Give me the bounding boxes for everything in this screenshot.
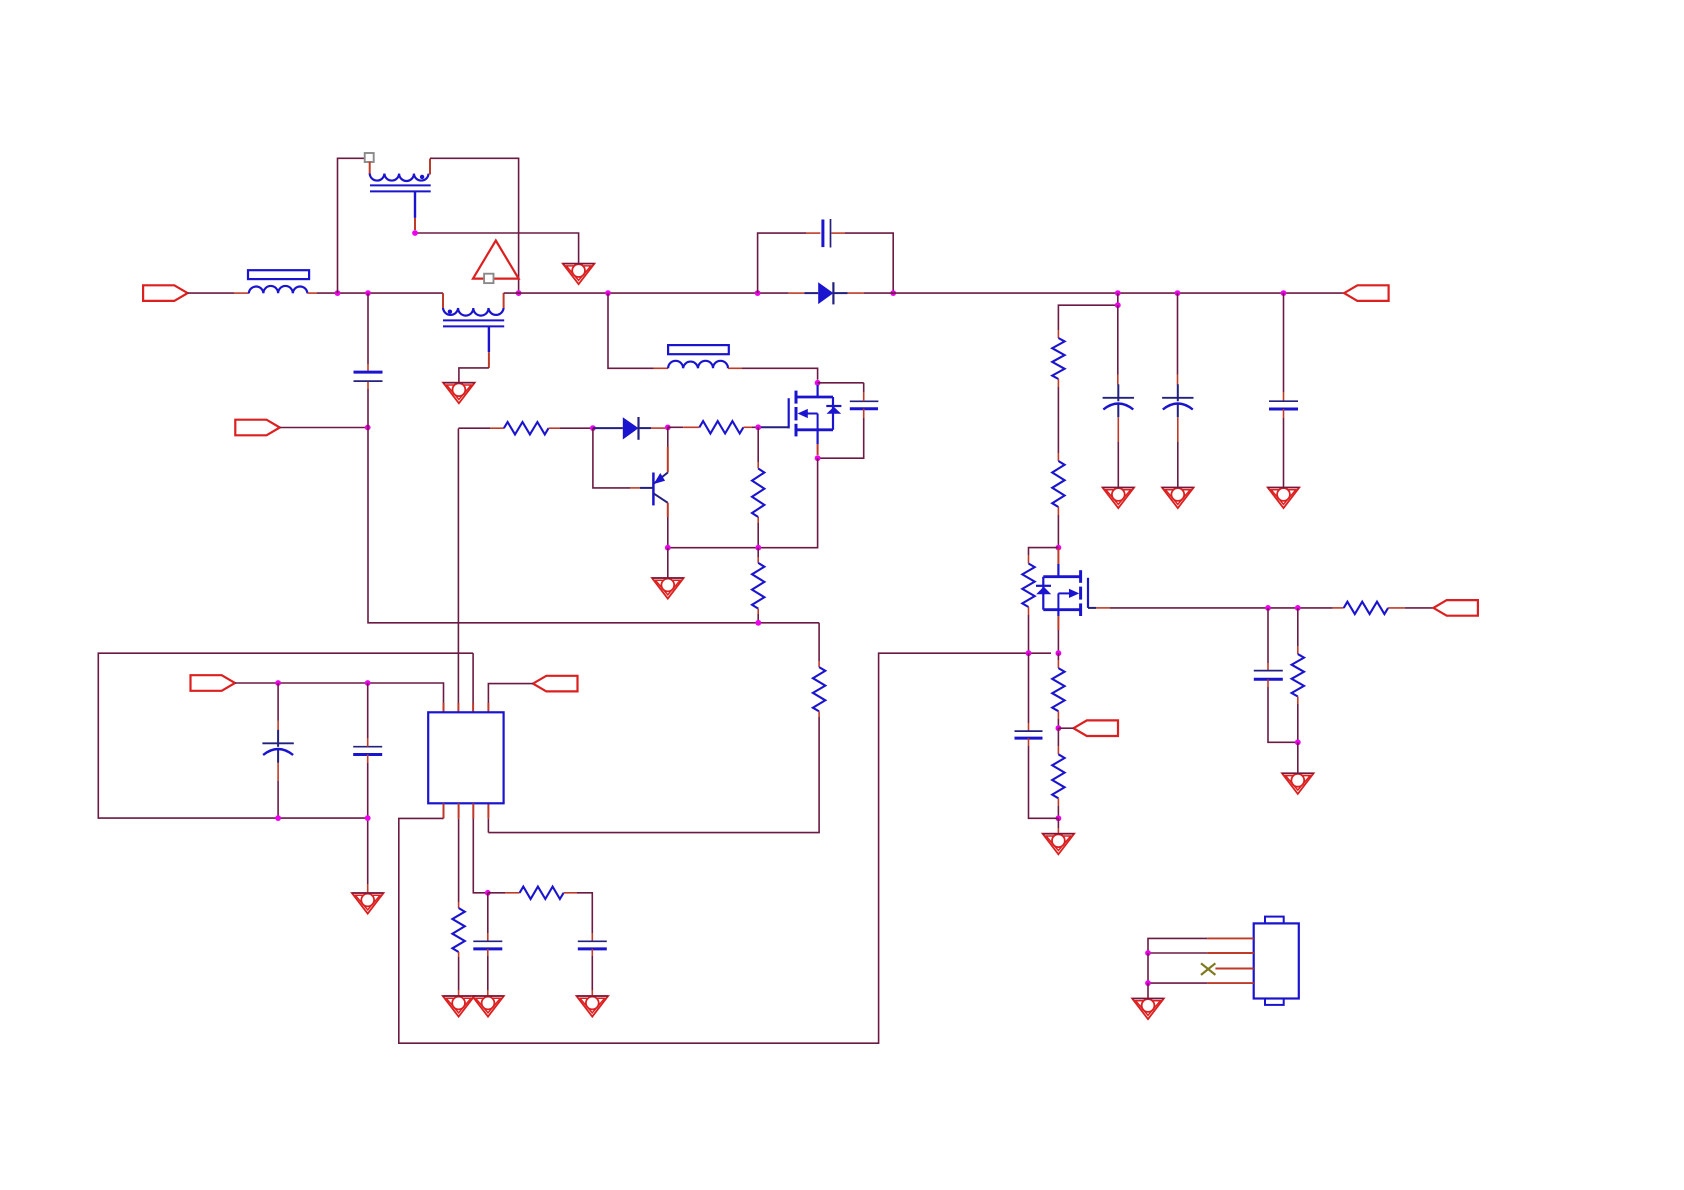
wire R6 branch <box>1297 608 1299 654</box>
resistor R11 <box>752 563 764 609</box>
transformer T1 (top) <box>370 159 431 230</box>
wire R13 to ground G10 <box>458 952 460 996</box>
wire T1 secondary right to ground G1 <box>415 233 579 264</box>
junction x1118 corner <box>1115 302 1121 308</box>
wire base divider <box>593 428 640 488</box>
wire R11 to lower rail <box>757 609 759 623</box>
ground G13 <box>1132 999 1164 1020</box>
junction bus/snubber-right <box>890 290 896 296</box>
port P7 (output right) <box>1433 600 1478 616</box>
ferrite bead L1 <box>248 270 317 293</box>
resistor R6 <box>1292 654 1304 696</box>
wire x458 to IC pin2 stub <box>457 703 459 712</box>
junction C6/loop bottom <box>365 815 371 821</box>
wire P4 to IC pin2 <box>488 684 533 713</box>
resistor R9 <box>504 422 549 434</box>
wire node to P5 <box>1058 727 1073 729</box>
junction emitter/rail <box>665 545 671 551</box>
wire ground node to G8 <box>1057 818 1059 833</box>
warning marker triangle <box>473 241 519 284</box>
connector J1 body <box>1254 917 1299 1005</box>
wire connector pin2 <box>1148 952 1207 954</box>
junction connector pins 1-2 <box>1145 950 1151 956</box>
capacitor C5 (across Q1) <box>850 401 879 408</box>
MOSFET Q3 (with body diode, mirrored) <box>1036 548 1088 630</box>
junction bus/cap C4 <box>1281 290 1287 296</box>
wire R6 to junction <box>1297 697 1299 743</box>
capacitor CP1 (polarized) <box>1103 384 1134 417</box>
wire drive row to R9 <box>458 427 504 429</box>
unconnected-pin marker (gray square) at T1 pin 1 <box>365 153 374 162</box>
ground G11 <box>472 996 504 1017</box>
ground G3 <box>652 578 684 599</box>
wire gate node down <box>757 427 759 468</box>
wire C7 branch <box>1028 653 1030 731</box>
wire IC pin5 (bottom-left) to bottom rail <box>399 653 1051 1043</box>
wire D2 cathode down to Q2 collector <box>667 427 669 460</box>
junction bus/T1-primary <box>335 290 341 296</box>
capacitor C3 (snubber, vertical plates) <box>823 219 831 248</box>
wire node to R14 <box>488 892 520 894</box>
ground G6 <box>1268 488 1300 509</box>
wire R2 to Q3 drain node <box>1057 507 1059 548</box>
wire to ground G13 <box>1147 983 1149 998</box>
wire P2 to C1 column <box>280 427 368 429</box>
capacitor C8 <box>473 941 502 949</box>
junction bus/C1-column <box>365 290 371 296</box>
wire C8 to ground G11 <box>487 949 489 996</box>
IC U1 <box>428 712 503 803</box>
junction output RC <box>1295 739 1301 745</box>
junction Q3 source/rail <box>1056 650 1062 656</box>
wire Q3 gate to output row <box>1088 607 1333 609</box>
wire x1118 down to CP1 <box>1117 305 1119 384</box>
connector pin 3 (no-connect) <box>1215 968 1253 970</box>
wire bus down to L2 <box>608 293 668 368</box>
wire R10 to rail <box>757 517 759 548</box>
junction gate node <box>755 424 761 430</box>
capacitor CP2 (polarized) <box>1162 384 1193 417</box>
wire node to R5 <box>1057 728 1059 754</box>
wire D2 to R8 <box>668 426 700 428</box>
wire C1 column (bus down to rail) <box>368 293 819 623</box>
ground G7 <box>1282 773 1314 794</box>
wire drive feed vertical x458 <box>457 429 459 704</box>
diode D2 <box>593 417 665 440</box>
junction D2 anode <box>590 425 596 431</box>
resistor R4 <box>1052 668 1064 711</box>
wire Q2 emitter to rail <box>667 517 669 548</box>
wire R3 to rail <box>1028 607 1030 653</box>
ground G9 <box>352 893 384 914</box>
wire CP3 top <box>277 683 279 730</box>
wire connector pin1 <box>1148 938 1207 953</box>
port P2 (left) <box>235 420 279 436</box>
capacitor C7 <box>1015 731 1043 738</box>
wire to R7 <box>1333 607 1344 609</box>
junction R6 node <box>1295 605 1301 611</box>
wire connector gnd column <box>1147 953 1149 983</box>
resistor R10 <box>752 469 764 518</box>
resistor R12 <box>813 667 825 711</box>
junction Q1 source node <box>815 455 821 461</box>
wire snubber left vertical <box>758 233 821 293</box>
junction T1 secondary <box>412 230 418 236</box>
wire snubber right vertical <box>832 233 894 293</box>
wire IC pin6 to R13 <box>458 803 460 908</box>
junction bus/snubber-left <box>755 290 761 296</box>
resistor R7 <box>1344 602 1388 614</box>
junction P2/C1 column <box>365 425 371 431</box>
wire bus down x1118 + corner to ladder <box>1058 293 1117 338</box>
resistor R3 <box>1022 564 1034 608</box>
ground G10 <box>443 996 475 1017</box>
resistor R1 <box>1052 338 1064 379</box>
ground G2 (T2 secondary) <box>443 383 475 404</box>
junction Q1 drain node <box>815 380 821 386</box>
wire rail to ground G3 <box>667 548 669 578</box>
wire C6 top <box>367 683 369 747</box>
wire R4 to port node <box>1057 711 1059 728</box>
wire connector pin4 <box>1148 982 1207 984</box>
wire bus T2 to snubber <box>504 292 789 294</box>
wire C7 bottom to ground node <box>1029 738 1059 818</box>
port P1 (input, left) <box>143 285 188 301</box>
junction Q3 drain node <box>1056 545 1062 551</box>
junction P3/C6 <box>365 680 371 686</box>
port P5 <box>1074 720 1119 736</box>
wire T2 secondary to ground G2 <box>459 368 489 383</box>
wire C10 branch <box>1267 608 1269 671</box>
wire T1 pin2 to bus <box>430 158 519 293</box>
junction R3/rail <box>1026 650 1032 656</box>
wire C9 to ground G12 <box>591 949 593 996</box>
wire R12 to IC pin4 row <box>488 711 819 832</box>
wire R9 to D2 <box>549 427 593 429</box>
wire drain node to R3 <box>1029 548 1059 564</box>
capacitor CP3 (polarized) <box>262 730 293 763</box>
port P3 (left mid) <box>191 675 236 691</box>
wire to ground G7 <box>1297 742 1299 773</box>
wire P1 to L1 <box>188 292 249 294</box>
wire CP1 to ground G4 <box>1117 417 1119 487</box>
wire L1 to T2 (main bus) <box>317 292 443 294</box>
wire C4 to ground G6 <box>1283 409 1285 488</box>
wire Q3 source to rail <box>1057 630 1059 653</box>
transformer T2 (in bus line) <box>443 293 504 368</box>
wire node down to C8 <box>487 893 489 942</box>
capacitor C10 <box>1254 671 1283 680</box>
connector pin 4 <box>1207 982 1254 984</box>
junction bus/T1 pin2 <box>516 290 522 296</box>
junction R10/rail <box>755 545 761 551</box>
resistor R14 <box>520 887 564 899</box>
wire T1 primary left (up from bus) <box>338 158 365 293</box>
wire C6 bottom to ground G9 <box>367 755 369 894</box>
wire bus down to CP2 <box>1177 293 1179 384</box>
junction bus/cap CP2 <box>1175 290 1181 296</box>
wire Q1 gate lead <box>758 426 789 428</box>
wire IC pin4 stub <box>487 803 489 832</box>
wire CP3 bottom <box>277 763 279 819</box>
wire lower rail corner down <box>818 623 820 667</box>
ground G4 <box>1103 488 1135 509</box>
wire loop top to IC pin3 <box>472 653 474 712</box>
wire C10 to R6 bottom <box>1268 679 1298 742</box>
resistor R8 (gate) <box>699 421 743 433</box>
no-connect X mark <box>1201 963 1215 975</box>
junction R11/lower rail <box>755 620 761 626</box>
wire L2 to Q1 drain <box>742 368 818 380</box>
junction bus/branch-down <box>605 290 611 296</box>
port P6 (output, top right) <box>1344 285 1389 301</box>
connector pin 2 <box>1207 952 1254 954</box>
port P4 (mid) <box>533 676 578 692</box>
wire Q1 drain to C5 <box>818 383 864 402</box>
wire rail down to R11 <box>757 548 759 563</box>
wire R1-R2 <box>1057 379 1059 461</box>
diode D1 (bus rectifier) <box>789 282 864 304</box>
connector pin 1 <box>1207 937 1254 939</box>
junction D2 cathode <box>665 425 671 431</box>
junction port P5 node <box>1056 725 1062 731</box>
ferrite bead L2 <box>668 345 742 368</box>
capacitor C1 <box>354 372 383 381</box>
resistor R2 <box>1052 461 1064 507</box>
junction connector pins <box>1145 980 1151 986</box>
capacitor C4 <box>1269 401 1298 409</box>
junction CP3/loop bottom <box>275 815 281 821</box>
resistor R5 <box>1052 754 1064 798</box>
junction P3/CP3 <box>275 680 281 686</box>
MOSFET Q1 (with body diode) <box>789 385 842 455</box>
wire CP2 to ground G5 <box>1177 417 1179 487</box>
junction C10 node <box>1265 605 1271 611</box>
wire Q1 source down to rail <box>668 458 818 548</box>
ground G1 (T1 secondary) <box>563 264 595 285</box>
transistor Q2 (PNP) <box>640 461 668 518</box>
junction feedback node <box>485 890 491 896</box>
wire R8 to gate node <box>743 426 758 428</box>
wire R14 to C9 <box>564 893 593 942</box>
wire rail to R4 <box>1057 653 1059 668</box>
wire C5 bottom to Q1 source <box>818 409 864 459</box>
ground G5 <box>1162 488 1194 509</box>
wire IC pin7 to feedback row <box>473 803 488 893</box>
wire bus right section <box>864 292 1344 294</box>
junction divider ground node <box>1056 815 1062 821</box>
wire R7 to port P7 <box>1388 607 1433 609</box>
capacitor C9 <box>578 941 607 949</box>
resistor R13 <box>452 908 464 952</box>
junction bus/cap CP1 <box>1115 290 1121 296</box>
wire bus down to C4 <box>1283 293 1285 401</box>
wire left loop <box>98 653 473 818</box>
ground G8 <box>1043 834 1075 855</box>
capacitor C6 <box>353 747 382 755</box>
ground G12 <box>577 996 609 1017</box>
wire R5 to ground node <box>1057 798 1059 818</box>
wire P3 to IC pin1 <box>235 683 444 712</box>
